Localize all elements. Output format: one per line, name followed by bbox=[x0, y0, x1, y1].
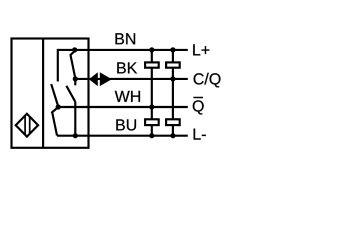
Q overbar bbox=[193, 97, 203, 99]
wire WH (Q-bar) bbox=[58, 106, 188, 108]
junction dot WH/SA-SB bbox=[56, 104, 61, 109]
junction dot C/Q right bbox=[170, 76, 175, 81]
label BN bbox=[116, 33, 136, 44]
sensor body outline bbox=[12, 39, 89, 148]
left contact chain: top drop wire bbox=[57, 49, 59, 82]
switch SB contact hook bbox=[51, 108, 57, 113]
IO-Link communication arrow left bbox=[89, 72, 98, 86]
load resistor top-left bbox=[145, 62, 159, 67]
switch S1 contact hook bbox=[70, 51, 75, 55]
wire BU (L-) bbox=[57, 135, 188, 137]
label WH bbox=[115, 91, 140, 102]
sensor compartment divider bbox=[42, 39, 44, 148]
switch SB lever bbox=[52, 112, 57, 135]
load resistor top-right bbox=[166, 62, 180, 67]
load resistor bottom-right bbox=[166, 119, 180, 125]
switch S1 lever bbox=[71, 55, 76, 78]
label C/Q bbox=[194, 73, 221, 88]
label BK bbox=[117, 62, 137, 73]
right chain lower vertical wire bbox=[74, 102, 76, 136]
junction dot L- left bbox=[149, 133, 154, 138]
switch S2 lever bbox=[66, 86, 75, 102]
switch S2 stub bbox=[74, 79, 76, 85]
junction dot BK/S1-S2 bbox=[73, 76, 78, 81]
label BU bbox=[116, 119, 136, 130]
load branch line right bbox=[172, 50, 174, 136]
load resistor bottom-left bbox=[145, 119, 159, 125]
junction dot L+ right bbox=[170, 47, 175, 52]
junction dot Q-bar left bbox=[149, 104, 154, 109]
label L+ bbox=[193, 44, 209, 55]
junction dot L- right bbox=[170, 133, 175, 138]
wire BK (C/Q) bbox=[75, 78, 188, 80]
label Q-bar Q bbox=[193, 100, 204, 114]
load branch line left bbox=[151, 50, 153, 136]
proximity sensor symbol (diamond) bbox=[16, 114, 38, 137]
junction dot L+ left bbox=[149, 47, 154, 52]
IO-Link communication arrow right bbox=[100, 72, 112, 86]
wire BN (L+) bbox=[58, 49, 188, 51]
junction dot BN/S1 bbox=[72, 47, 77, 52]
label L- bbox=[194, 129, 206, 140]
junction dot BU/right chain bbox=[73, 133, 78, 138]
switch SA lever bbox=[51, 84, 58, 107]
